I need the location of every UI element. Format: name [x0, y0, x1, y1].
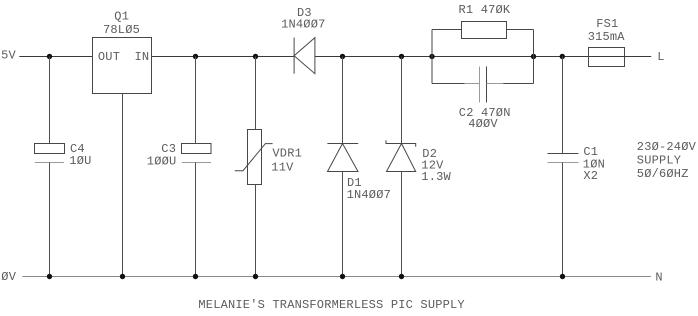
- node junction Q1 ground: [120, 274, 125, 279]
- wire C2 bottom right lead gray: [487, 83, 504, 85]
- svg-text:1N4ØØ7: 1N4ØØ7: [347, 188, 391, 202]
- diode D3 1N4007: [294, 38, 315, 74]
- wire C2 bottom right lead dark: [503, 83, 533, 85]
- svg-text:SUPPLY: SUPPLY: [637, 154, 681, 168]
- svg-text:N: N: [655, 270, 662, 284]
- node junction VDR1 bottom: [253, 274, 258, 279]
- node 10U label: [69, 154, 91, 168]
- node FS1 label: [596, 17, 618, 31]
- wire 0V bottom rail: [22, 276, 651, 278]
- node 1N4007 value label for D3: [281, 18, 325, 32]
- wire D2 branch top: [401, 57, 403, 144]
- node D2 label: [422, 147, 437, 161]
- node Q1 label: [114, 10, 129, 24]
- wire D1 branch top: [342, 57, 344, 144]
- node C3 label: [161, 142, 176, 156]
- node junction C1 bottom: [560, 274, 565, 279]
- svg-text:11V: 11V: [271, 161, 294, 175]
- node junction C1 top: [560, 54, 565, 59]
- svg-text:315mA: 315mA: [588, 30, 626, 44]
- wire Q1 IN to D3: [152, 56, 295, 58]
- svg-text:OUT: OUT: [98, 50, 120, 64]
- svg-text:IN: IN: [135, 50, 150, 64]
- node junction D1 bottom: [340, 274, 345, 279]
- svg-text:5V: 5V: [1, 48, 16, 62]
- node 10N label: [583, 157, 605, 171]
- svg-text:R1 47ØK: R1 47ØK: [459, 3, 511, 17]
- wire VDR1 branch top: [255, 57, 257, 130]
- wire C1 branch top: [562, 57, 564, 154]
- varistor VDR1 11V: [235, 130, 273, 185]
- wire 5V to Q1 OUT: [19, 56, 92, 58]
- node C4 label: [70, 142, 85, 156]
- svg-text:4ØØV: 4ØØV: [468, 117, 498, 131]
- node VDR1 label: [272, 147, 302, 161]
- node junction C4 top: [47, 54, 52, 59]
- node junction C4 bottom: [47, 274, 52, 279]
- node junction VDR1 top: [253, 54, 258, 59]
- wire C4 branch bottom: [49, 163, 51, 277]
- svg-text:23Ø-24ØV: 23Ø-24ØV: [637, 140, 697, 154]
- diode D1 1N4007: [327, 144, 358, 172]
- capacitor C4 10U: [35, 144, 65, 163]
- wire D2 branch bottom: [401, 172, 403, 277]
- node OUT pin label: [98, 50, 120, 64]
- zener diode D2 12V 1.3W: [386, 140, 416, 171]
- node 315mA label: [588, 30, 626, 44]
- wire C1 branch bottom: [562, 163, 564, 277]
- node junction R1 C2 left: [429, 54, 434, 59]
- wire R1/C2 loop right vertical: [533, 30, 535, 84]
- regulator Q1 78L05 box: [93, 38, 152, 94]
- wire D1 branch bottom: [342, 172, 344, 277]
- wire R1 top left lead: [432, 29, 462, 31]
- capacitor C3 100U: [182, 144, 212, 163]
- node 11V label: [271, 161, 294, 175]
- wire VDR1 branch bottom: [255, 185, 257, 277]
- wire C2 bottom left lead dark: [432, 83, 465, 85]
- node 5V label: [1, 48, 16, 62]
- svg-text:Q1: Q1: [114, 10, 129, 24]
- wire C2 bottom left lead gray: [465, 83, 480, 85]
- node R1 470K label: [459, 3, 511, 17]
- svg-text:VDR1: VDR1: [272, 147, 302, 161]
- svg-text:5Ø/6ØHZ: 5Ø/6ØHZ: [637, 167, 689, 181]
- node L terminal label: [657, 50, 664, 64]
- node junction D1 top: [340, 54, 345, 59]
- node D1 label: [347, 176, 362, 190]
- node 100U label: [147, 154, 177, 168]
- node D3 label: [297, 6, 312, 20]
- svg-text:L: L: [657, 50, 664, 64]
- node C2 470N label: [459, 106, 511, 120]
- wire C4 branch top: [49, 57, 51, 144]
- svg-text:MELANIE'S TRANSFORMERLESS PIC: MELANIE'S TRANSFORMERLESS PIC SUPPLY: [198, 298, 464, 311]
- wire C3 branch bottom: [195, 163, 197, 277]
- wire R1/C2 loop left vertical: [431, 30, 433, 84]
- node X2 label: [583, 169, 598, 183]
- resistor R1 470K: [462, 22, 507, 39]
- node 1.3W label: [421, 170, 451, 184]
- node 400V label: [468, 117, 498, 131]
- node 230-240V supply label: [637, 140, 697, 181]
- node junction R1 C2 right: [531, 54, 536, 59]
- svg-text:ØV: ØV: [1, 270, 16, 284]
- fuse FS1 315mA: [589, 48, 625, 67]
- wire D3 to FS1: [315, 56, 589, 58]
- node junction C3 top: [193, 54, 198, 59]
- svg-text:1ØU: 1ØU: [69, 154, 91, 168]
- wire FS1 to L terminal: [625, 56, 652, 58]
- node junction D2 bottom: [399, 274, 404, 279]
- svg-text:1ØØU: 1ØØU: [147, 154, 177, 168]
- node 1N4007 value label for D1: [347, 188, 391, 202]
- node junction C3 bottom: [193, 274, 198, 279]
- wire C3 branch top: [195, 57, 197, 144]
- svg-text:FS1: FS1: [596, 17, 618, 31]
- node C1 label: [583, 145, 598, 159]
- node 0V label: [1, 270, 16, 284]
- svg-text:78LØ5: 78LØ5: [103, 23, 140, 37]
- svg-text:1N4ØØ7: 1N4ØØ7: [281, 18, 325, 32]
- node N terminal label: [655, 270, 662, 284]
- svg-text:1.3W: 1.3W: [421, 170, 451, 184]
- capacitor C1 10N X2: [548, 154, 579, 163]
- svg-text:X2: X2: [583, 169, 598, 183]
- node title MELANIE'S TRANSFORMERLESS PIC SUPPLY: [198, 298, 464, 312]
- node 78L05 value label: [103, 23, 140, 37]
- node IN pin label: [135, 50, 150, 64]
- capacitor C2 470N 400V: [480, 67, 487, 103]
- wire Q1 ground leg: [122, 94, 124, 277]
- node junction D2 top: [399, 54, 404, 59]
- wire R1 top right lead: [507, 29, 534, 31]
- node 12V label: [421, 159, 444, 173]
